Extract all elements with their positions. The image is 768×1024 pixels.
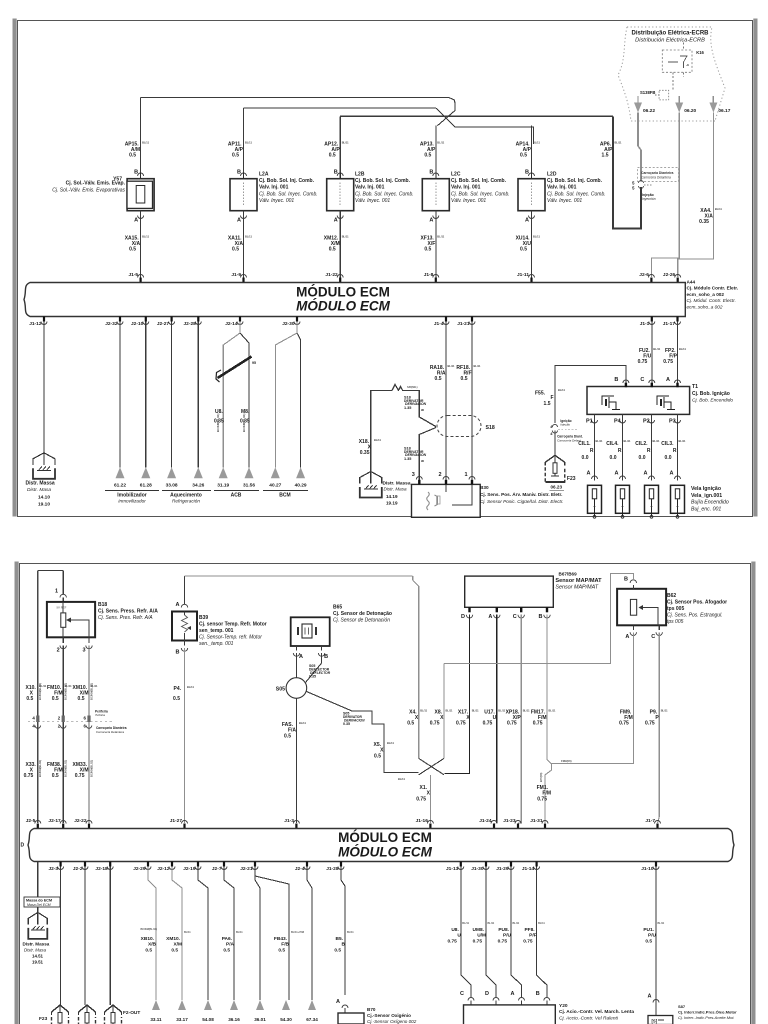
svg-text:J1-3: J1-3 [284, 818, 294, 824]
svg-text:1: 1 [464, 472, 467, 478]
svg-text:P/A: P/A [226, 942, 235, 948]
svg-text:J2-12: J2-12 [157, 866, 170, 872]
svg-text:0.75: 0.75 [638, 359, 648, 365]
svg-text:B: B [536, 991, 540, 997]
svg-text:36.01: 36.01 [254, 1017, 266, 1022]
svg-text:Valv. Inj. 001: Valv. Inj. 001 [355, 185, 385, 191]
svg-text:K16: K16 [696, 50, 704, 55]
svg-text:0.75: 0.75 [523, 939, 533, 945]
svg-text:A: A [176, 602, 180, 608]
svg-text:A: A [511, 991, 515, 997]
svg-text:Y57: Y57 [113, 177, 122, 183]
svg-text:BL/11: BL/11 [624, 439, 631, 443]
svg-text:J2-29: J2-29 [133, 866, 146, 872]
svg-text:06.22: 06.22 [643, 108, 655, 114]
svg-text:Válv. Inyec. 001: Válv. Inyec. 001 [547, 198, 582, 204]
svg-text:Cj. Módulo Contr. Eletr.: Cj. Módulo Contr. Eletr. [687, 286, 739, 291]
svg-text:J1-29: J1-29 [496, 866, 509, 872]
svg-text:BL/11: BL/11 [299, 721, 306, 725]
svg-text:0.5: 0.5 [145, 948, 152, 954]
svg-text:Distribuição Elétrica-ECRB: Distribuição Elétrica-ECRB [631, 31, 709, 37]
svg-text:Buj_enc. 001: Buj_enc. 001 [691, 506, 721, 512]
svg-text:J1-16: J1-16 [416, 818, 429, 824]
svg-text:C: C [460, 991, 464, 997]
svg-text:tps 005: tps 005 [667, 606, 684, 612]
svg-text:J1-30: J1-30 [471, 866, 484, 872]
svg-text:B: B [539, 614, 543, 620]
svg-text:Cj. Sens. Press. Refr. A/A: Cj. Sens. Press. Refr. A/A [98, 609, 158, 615]
svg-text:0.5: 0.5 [374, 754, 381, 760]
svg-text:0.5: 0.5 [171, 948, 178, 954]
svg-text:0.75: 0.75 [645, 721, 655, 727]
svg-text:+: + [593, 504, 596, 509]
svg-text:Cj.-Sensor Oxigénio: Cj.-Sensor Oxigénio [367, 1013, 411, 1018]
svg-text:0.5: 0.5 [424, 247, 431, 253]
svg-text:0.35: 0.35 [699, 219, 709, 225]
svg-text:BL/11: BL/11 [187, 685, 194, 689]
svg-text:0.75: 0.75 [75, 773, 85, 779]
svg-text:Cj. Sensor Posic. Cigüeñal. Di: Cj. Sensor Posic. Cigüeñal. Distr. Elect… [480, 499, 564, 504]
svg-text:14.51: 14.51 [32, 954, 44, 959]
svg-text:U: U [457, 933, 461, 939]
svg-text:J1-10: J1-10 [641, 866, 654, 872]
svg-text:BL/11: BL/11 [533, 235, 540, 239]
svg-text:Sensor MAP/MAT: Sensor MAP/MAT [555, 578, 602, 584]
svg-text:MÓDULO ECM: MÓDULO ECM [338, 830, 432, 845]
svg-text:ecm_soho_a 002: ecm_soho_a 002 [687, 292, 725, 297]
svg-text:B: B [624, 577, 628, 583]
svg-text:B18: B18 [98, 602, 107, 608]
svg-text:J1-21: J1-21 [457, 321, 470, 327]
svg-text:J1-14: J1-14 [522, 866, 535, 872]
svg-text:Turbina: Turbina [95, 713, 105, 717]
svg-text:BL/11: BL/11 [245, 141, 252, 145]
svg-text:0.5: 0.5 [520, 153, 527, 159]
svg-text:J2-21: J2-21 [240, 866, 253, 872]
svg-text:J1-13: J1-13 [446, 866, 459, 872]
svg-text:BL/11: BL/11 [558, 388, 565, 392]
svg-text:1.5: 1.5 [544, 401, 551, 407]
svg-text:Cj. Bob. Encendido: Cj. Bob. Encendido [692, 398, 733, 404]
svg-text:0.75: 0.75 [533, 721, 543, 727]
svg-text:J1-22: J1-22 [325, 272, 338, 278]
svg-text:A: A [336, 999, 340, 1005]
svg-text:CIL4.: CIL4. [606, 441, 619, 447]
svg-text:sen._temp. 001: sen._temp. 001 [199, 641, 234, 647]
svg-text:BL/11: BL/11 [474, 364, 481, 368]
svg-text:14.19: 14.19 [386, 494, 398, 499]
svg-text:0.75: 0.75 [507, 721, 517, 727]
svg-text:0.5: 0.5 [129, 247, 136, 253]
svg-text:D: D [21, 843, 25, 849]
svg-text:1.5: 1.5 [602, 153, 609, 159]
svg-text:Cj. Interr.Indic.Pres.Óleo.Mot: Cj. Interr.Indic.Pres.Óleo.Motor [678, 1010, 737, 1015]
svg-text:40.29: 40.29 [295, 483, 307, 489]
svg-text:A: A [237, 218, 241, 224]
svg-text:L2B: L2B [355, 172, 365, 178]
svg-text:B70: B70 [367, 1007, 376, 1012]
svg-text:S18: S18 [486, 425, 495, 431]
svg-text:B: B [176, 650, 180, 656]
svg-text:Cj. Acio.-Contr. Vel. March. L: Cj. Acio.-Contr. Vel. March. Lenta [559, 1009, 634, 1015]
svg-text:ACB: ACB [231, 493, 242, 499]
svg-text:BL/11: BL/11 [472, 709, 479, 713]
svg-text:31.56: 31.56 [243, 483, 255, 489]
svg-text:Cj. Módul. Contr. Electr.: Cj. Módul. Contr. Electr. [687, 298, 736, 303]
svg-text:Inyección: Inyección [642, 197, 656, 201]
svg-text:Sensor MAP/MAT: Sensor MAP/MAT [555, 585, 598, 591]
svg-text:BC/KM(BL/11): BC/KM(BL/11) [64, 683, 68, 700]
svg-text:Cj. Bob. Sol. Inj. Comb.: Cj. Bob. Sol. Inj. Comb. [547, 178, 603, 184]
svg-text:19.51: 19.51 [32, 960, 44, 965]
svg-text:BL/11: BL/11 [596, 439, 603, 443]
svg-text:+: + [621, 504, 624, 509]
svg-text:0.0: 0.0 [610, 455, 617, 461]
svg-text:Distr. Masa: Distr. Masa [27, 487, 51, 493]
svg-text:A: A [429, 218, 433, 224]
svg-text:BL/11: BL/11 [184, 931, 191, 934]
svg-text:Carrocería Delantera: Carrocería Delantera [641, 176, 671, 180]
svg-text:0.5: 0.5 [645, 939, 652, 945]
svg-text:BCM: BCM [279, 493, 290, 499]
svg-text:36.16: 36.16 [228, 1017, 240, 1022]
svg-text:BL/11: BL/11 [679, 347, 686, 351]
svg-text:R: R [590, 448, 594, 454]
svg-text:J2-2: J2-2 [73, 866, 83, 872]
svg-text:Cj. Bob. Sol. Inj. Comb.: Cj. Bob. Sol. Inj. Comb. [451, 178, 507, 184]
svg-text:XB10.: XB10. [141, 936, 154, 942]
svg-text:PF8.: PF8. [524, 927, 534, 933]
svg-text:0.75: 0.75 [537, 797, 547, 803]
svg-text:FM9(06): FM9(06) [561, 759, 572, 763]
svg-text:BC/KM(BL/11): BC/KM(BL/11) [89, 683, 93, 700]
svg-text:A: A [525, 218, 529, 224]
svg-text:61.22: 61.22 [114, 483, 126, 489]
svg-text:BL/11: BL/11 [653, 347, 660, 351]
svg-text:T1: T1 [692, 384, 698, 390]
svg-text:tps 005: tps 005 [667, 619, 684, 625]
svg-text:A: A [648, 994, 652, 1000]
svg-text:0.5: 0.5 [435, 376, 442, 382]
svg-text:BL/11: BL/11 [715, 207, 722, 211]
svg-text:Cj. Bob. Sol. Inj. Comb.: Cj. Bob. Sol. Inj. Comb. [355, 178, 411, 184]
svg-text:33.17: 33.17 [176, 1017, 188, 1022]
svg-text:BL/11: BL/11 [513, 922, 520, 925]
svg-text:J1-12: J1-12 [29, 321, 42, 327]
svg-text:2: 2 [438, 472, 441, 478]
svg-text:67.34: 67.34 [306, 1017, 318, 1022]
svg-text:UM8.: UM8. [473, 927, 484, 933]
svg-text:P4: P4 [614, 419, 622, 425]
svg-text:Distribución Eléctrica-ECRB: Distribución Eléctrica-ECRB [635, 38, 705, 44]
svg-text:J2-6: J2-6 [639, 272, 649, 278]
svg-text:0.5: 0.5 [52, 773, 59, 779]
svg-text:R: R [647, 448, 651, 454]
svg-text:U: U [493, 715, 497, 721]
svg-text:L2D: L2D [547, 172, 557, 178]
svg-text:Y20: Y20 [559, 1003, 568, 1009]
svg-text:BC/KM(BL/11): BC/KM(BL/11) [216, 413, 220, 432]
svg-text:0.5: 0.5 [173, 696, 180, 702]
svg-text:P2: P2 [643, 419, 650, 425]
svg-text:BL/11: BL/11 [538, 922, 545, 925]
svg-text:F/B: F/B [281, 942, 289, 948]
svg-text:A: A [587, 471, 591, 477]
svg-text:BL/11: BL/11 [448, 364, 455, 368]
svg-text:0.5: 0.5 [223, 948, 230, 954]
svg-text:Cj. Sens. Pres. Refr. A/A: Cj. Sens. Pres. Refr. A/A [98, 615, 153, 621]
svg-text:D: D [485, 991, 489, 997]
svg-text:J1-23: J1-23 [503, 818, 516, 824]
svg-text:Cj. Accio.-Contr. Vel Ralenti: Cj. Accio.-Contr. Vel Ralenti [559, 1015, 619, 1021]
svg-text:B: B [324, 654, 328, 660]
svg-text:1.35: 1.35 [404, 406, 411, 410]
svg-text:A: A [334, 218, 338, 224]
svg-text:Injeção: Injeção [560, 423, 570, 427]
svg-text:0.5: 0.5 [232, 247, 239, 253]
svg-text:0.75: 0.75 [663, 359, 673, 365]
svg-text:B67/B69: B67/B69 [559, 572, 578, 577]
svg-text:F2-OUT: F2-OUT [123, 1010, 140, 1016]
svg-text:1.35: 1.35 [404, 457, 411, 461]
svg-text:J2-17: J2-17 [48, 818, 61, 824]
svg-text:BL/11: BL/11 [615, 141, 622, 145]
svg-text:90: 90 [421, 459, 425, 463]
svg-text:BL/11: BL/11 [245, 235, 252, 239]
svg-text:PU1.: PU1. [643, 927, 654, 933]
svg-text:B5.: B5. [336, 936, 343, 942]
svg-text:L2A: L2A [259, 172, 269, 178]
svg-text:33.11: 33.11 [150, 1017, 162, 1022]
svg-text:BL/11: BL/11 [420, 709, 427, 713]
svg-text:BL/11: BL/11 [488, 922, 495, 925]
svg-text:0.35: 0.35 [309, 674, 316, 678]
svg-text:Refrigeración: Refrigeración [172, 499, 200, 504]
svg-text:Valv. Inj. 001: Valv. Inj. 001 [451, 185, 481, 191]
svg-text:BL/11+7/98: BL/11+7/98 [291, 931, 305, 934]
svg-text:BL/11: BL/11 [347, 931, 354, 934]
svg-text:MÓDULO ECM: MÓDULO ECM [296, 285, 390, 300]
svg-text:Masa Del ECM: Masa Del ECM [27, 903, 51, 907]
svg-text:L2C: L2C [451, 172, 461, 178]
svg-text:J2-18: J2-18 [95, 866, 108, 872]
svg-text:0.5: 0.5 [520, 247, 527, 253]
svg-text:S87: S87 [678, 1004, 686, 1009]
svg-text:BC/KM(BL/11): BC/KM(BL/11) [38, 760, 42, 777]
svg-text:Cj. Bob. Ignição: Cj. Bob. Ignição [692, 391, 730, 397]
svg-text:Válv. Inyec. 001: Válv. Inyec. 001 [355, 198, 390, 204]
svg-text:Cj. Sens. Pos. Árv. Maniv. Dis: Cj. Sens. Pos. Árv. Maniv. Distr. Eletr. [480, 491, 562, 497]
svg-text:Cj. Sol.-Válv. Emis. Evaporati: Cj. Sol.-Válv. Emis. Evaporativas [52, 188, 125, 194]
svg-text:X/B: X/B [148, 942, 157, 948]
svg-text:ecm_soho_a 002: ecm_soho_a 002 [687, 304, 723, 309]
svg-text:J2-28: J2-28 [184, 321, 197, 327]
svg-text:Cj. Sens. Pos. Estrangul.: Cj. Sens. Pos. Estrangul. [667, 613, 723, 619]
svg-text:CIL1.: CIL1. [578, 441, 591, 447]
svg-text:J1-8: J1-8 [424, 272, 434, 278]
svg-text:0.5: 0.5 [278, 948, 285, 954]
svg-text:J2-3: J2-3 [48, 866, 58, 872]
svg-text:0.5: 0.5 [424, 153, 431, 159]
svg-text:J1-17: J1-17 [663, 321, 676, 327]
svg-text:0.5: 0.5 [334, 948, 341, 954]
svg-text:06.17: 06.17 [718, 108, 730, 114]
svg-text:0.75: 0.75 [473, 939, 483, 945]
svg-text:14.10: 14.10 [38, 495, 50, 501]
svg-text:B30: B30 [480, 485, 489, 490]
svg-text:BL/11: BL/11 [342, 141, 349, 145]
svg-text:J2-30: J2-30 [282, 321, 295, 327]
svg-text:J2-5: J2-5 [26, 818, 36, 824]
svg-text:A: A [615, 471, 619, 477]
svg-text:0.5: 0.5 [78, 696, 85, 702]
svg-text:A: A [644, 471, 648, 477]
svg-text:B: B [342, 942, 346, 948]
svg-text:2: 2 [57, 648, 60, 654]
svg-text:J1-28: J1-28 [326, 866, 339, 872]
svg-text:MÓDULO ECM: MÓDULO ECM [338, 845, 432, 860]
svg-text:0.5: 0.5 [461, 376, 468, 382]
svg-text:J1-4: J1-4 [434, 321, 444, 327]
svg-text:J2-19: J2-19 [183, 866, 196, 872]
svg-text:1: 1 [55, 589, 58, 595]
svg-text:F23: F23 [567, 476, 576, 482]
svg-text:06.23: 06.23 [551, 485, 563, 490]
svg-text:P/U: P/U [503, 933, 512, 939]
svg-text:F55.: F55. [535, 391, 546, 397]
svg-text:0.0: 0.0 [582, 455, 589, 461]
svg-text:BL/11: BL/11 [374, 438, 381, 442]
svg-text:31.19: 31.19 [217, 483, 229, 489]
svg-text:BC/KM(BL/11): BC/KM(BL/11) [242, 413, 246, 432]
svg-text:0.75: 0.75 [24, 773, 34, 779]
svg-text:P/U: P/U [648, 933, 657, 939]
svg-text:B65: B65 [333, 605, 342, 611]
svg-text:R: R [618, 448, 622, 454]
svg-text:B62: B62 [667, 593, 676, 599]
svg-text:0.5: 0.5 [52, 696, 59, 702]
svg-text:Valv. Inj. 001: Valv. Inj. 001 [259, 185, 289, 191]
svg-text:33.08: 33.08 [166, 483, 178, 489]
svg-text:34.26: 34.26 [192, 483, 204, 489]
svg-text:J2-27: J2-27 [157, 321, 170, 327]
svg-text:Cj. Sensor Pos. Afogador: Cj. Sensor Pos. Afogador [667, 600, 727, 606]
svg-text:J2-26: J2-26 [663, 272, 676, 278]
svg-text:J2-22: J2-22 [74, 818, 87, 824]
svg-text:+: + [676, 504, 679, 509]
svg-text:Valv. Inj. 001: Valv. Inj. 001 [547, 185, 577, 191]
svg-text:BL/11: BL/11 [462, 922, 469, 925]
svg-text:J1-31: J1-31 [530, 818, 543, 824]
svg-text:0.5: 0.5 [26, 696, 33, 702]
svg-text:J1-24: J1-24 [479, 818, 492, 824]
svg-text:BL/11: BL/11 [437, 141, 444, 145]
svg-text:BL/11: BL/11 [398, 777, 405, 781]
svg-text:Cj. Sensor de Detonación: Cj. Sensor de Detonación [333, 618, 390, 624]
svg-text:BL/11: BL/11 [342, 235, 349, 239]
svg-text:Cj.-Sensor Oxígeno 002: Cj.-Sensor Oxígeno 002 [367, 1019, 417, 1024]
svg-text:FB43.: FB43. [274, 936, 287, 942]
svg-text:B39: B39 [199, 615, 208, 621]
svg-text:Cj. Bob. Sol. Inyec. Comb.: Cj. Bob. Sol. Inyec. Comb. [259, 191, 318, 197]
svg-text:R: R [673, 448, 677, 454]
svg-text:0.5: 0.5 [284, 734, 291, 740]
svg-text:40.27: 40.27 [269, 483, 281, 489]
svg-text:BC/KM(BL/11): BC/KM(BL/11) [89, 760, 93, 777]
svg-text:Cj. Bob. Sol. Inyec. Comb.: Cj. Bob. Sol. Inyec. Comb. [451, 191, 510, 197]
svg-text:0.75: 0.75 [456, 721, 466, 727]
svg-text:Válv. Inyec. 001: Válv. Inyec. 001 [259, 198, 294, 204]
svg-text:sen_temp. 001: sen_temp. 001 [199, 628, 234, 634]
svg-text:+: + [650, 504, 653, 509]
svg-text:0.75: 0.75 [416, 797, 426, 803]
svg-text:[S]: [S] [652, 1019, 658, 1024]
svg-text:J1-5: J1-5 [128, 272, 138, 278]
svg-text:0.75: 0.75 [619, 721, 629, 727]
svg-text:CIL3.: CIL3. [661, 441, 674, 447]
svg-text:S05: S05 [276, 687, 285, 693]
svg-text:F: F [550, 395, 553, 401]
svg-text:XM10.: XM10. [166, 936, 180, 942]
svg-text:J1-7: J1-7 [645, 818, 655, 824]
svg-text:BL/11: BL/11 [653, 439, 660, 443]
svg-text:0.35: 0.35 [360, 450, 370, 456]
svg-text:C: C [640, 377, 644, 383]
svg-text:0.75: 0.75 [498, 939, 508, 945]
svg-text:61.28: 61.28 [140, 483, 152, 489]
svg-text:BL/11: BL/11 [142, 141, 149, 145]
svg-text:A: A [299, 654, 303, 660]
svg-text:J1-1: J1-1 [640, 321, 650, 327]
svg-text:3: 3 [412, 472, 415, 478]
svg-text:Cj. Sensor de Detonação: Cj. Sensor de Detonação [333, 611, 392, 617]
svg-text:D: D [461, 614, 465, 620]
svg-text:54.30: 54.30 [280, 1017, 292, 1022]
svg-text:Cj. Bob. Sol. Inj. Comb.: Cj. Bob. Sol. Inj. Comb. [259, 178, 315, 184]
svg-text:Bujía Encendido: Bujía Encendido [691, 500, 729, 506]
svg-text:S/D(M/L): S/D(M/L) [407, 385, 418, 389]
svg-text:BL/11: BL/11 [437, 235, 444, 239]
svg-text:Distr. Massa: Distr. Massa [26, 481, 55, 487]
svg-text:BC/KM(BL/11): BC/KM(BL/11) [64, 760, 68, 777]
svg-text:Distr. Masa: Distr. Masa [384, 487, 408, 492]
svg-text:BL/11: BL/11 [142, 235, 149, 239]
svg-text:PU8.: PU8. [498, 927, 509, 933]
svg-text:90: 90 [421, 408, 425, 412]
svg-text:P/F: P/F [529, 933, 537, 939]
svg-text:BL/11: BL/11 [679, 439, 686, 443]
svg-text:19.10: 19.10 [38, 502, 50, 508]
svg-text:A: A [625, 634, 629, 640]
svg-text:P1: P1 [586, 419, 593, 425]
svg-text:54.08: 54.08 [202, 1017, 214, 1022]
svg-text:X/M: X/M [173, 942, 182, 948]
svg-text:U8.: U8. [451, 927, 458, 933]
svg-text:0.5: 0.5 [407, 721, 414, 727]
svg-text:U/M: U/M [477, 933, 486, 939]
svg-text:Distr. Masa: Distr. Masa [24, 948, 47, 953]
svg-text:F23: F23 [39, 1016, 48, 1022]
svg-text:0.0: 0.0 [665, 455, 672, 461]
svg-text:0.0: 0.0 [639, 455, 646, 461]
svg-text:BL/11: BL/11 [549, 709, 556, 713]
svg-text:BL/11: BL/11 [658, 922, 665, 925]
svg-text:3: 3 [82, 648, 85, 654]
svg-text:S138FB: S138FB [640, 90, 655, 95]
svg-text:0.5: 0.5 [329, 153, 336, 159]
svg-text:BL/11: BL/11 [533, 141, 540, 145]
svg-text:P4.: P4. [173, 686, 181, 692]
